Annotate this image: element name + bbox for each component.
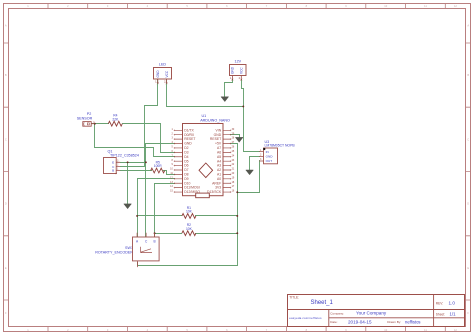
connector LED header: [154, 68, 172, 80]
svg-text:GND: GND: [231, 66, 235, 74]
svg-text:A0: A0: [217, 177, 221, 181]
svg-text:19: 19: [232, 176, 235, 179]
svg-text:3V3: 3V3: [215, 186, 221, 190]
node 5V rail R1 junction: [236, 215, 238, 217]
svg-text:IN: IN: [266, 150, 269, 154]
svg-text:RESET: RESET: [184, 137, 195, 141]
svg-text:9: 9: [171, 163, 173, 166]
resistor R5 100R: [151, 168, 165, 173]
svg-text:GND: GND: [156, 70, 160, 78]
wire GND vertical: encoder C up to arduino GND pin: [146, 144, 175, 237]
svg-text:VCC: VCC: [165, 70, 169, 77]
border zone ticks bottom: [48, 327, 445, 332]
svg-text:1: 1: [171, 128, 173, 131]
connector 12V header: [230, 65, 247, 76]
svg-text:2019-04-15: 2019-04-15: [348, 319, 372, 324]
svg-text:Your Company: Your Company: [356, 311, 387, 316]
svg-text:Drawn By:: Drawn By:: [387, 320, 401, 324]
node encoder-A R1 junction: [136, 215, 138, 217]
svg-text:C: C: [5, 137, 7, 141]
svg-text:A1: A1: [217, 173, 221, 177]
svg-text:GND: GND: [214, 133, 222, 137]
wire Q1 emitter to GND vertical: [121, 162, 146, 164]
wire Q1 base to R5: [121, 170, 152, 172]
border zone ticks top: [48, 4, 445, 9]
ground symbol below Q1 emitter: [124, 204, 132, 209]
svg-text:easyeda.com/neffistos: easyeda.com/neffistos: [289, 316, 322, 320]
svg-text:RESET: RESET: [210, 137, 221, 141]
svg-text:8: 8: [171, 159, 173, 162]
svg-text:C: C: [467, 137, 469, 141]
svg-text:10: 10: [170, 168, 173, 171]
svg-text:D3: D3: [184, 150, 188, 154]
wire encoder B up to arduino D10: [155, 184, 175, 237]
svg-text:OUT: OUT: [266, 159, 273, 163]
svg-text:LM78M05CT NOPB: LM78M05CT NOPB: [265, 143, 296, 147]
svg-text:D1/TX: D1/TX: [184, 128, 194, 132]
svg-text:LED: LED: [159, 63, 167, 67]
svg-text:A7: A7: [217, 146, 221, 150]
svg-text:25: 25: [232, 150, 235, 153]
svg-text:TITLE:: TITLE:: [289, 295, 299, 299]
svg-text:B: B: [112, 169, 114, 173]
border zone ticks left: [4, 43, 9, 300]
wire R1 right to 5V rail: [196, 215, 238, 217]
node Q1.E-GND junction: [145, 161, 147, 163]
wire R1 left to encoder A net: [138, 215, 182, 217]
svg-text:U1: U1: [202, 114, 207, 118]
svg-text:E: E: [5, 266, 7, 270]
svg-text:D10: D10: [184, 181, 190, 185]
wire Q1 emitter to ground symbol: [127, 163, 129, 204]
ground symbol at 12V input: [221, 97, 229, 102]
svg-text:7: 7: [266, 4, 268, 8]
svg-text:3: 3: [171, 137, 173, 140]
svg-text:2: 2: [171, 132, 173, 135]
svg-text:1: 1: [27, 4, 29, 8]
svg-text:2: 2: [67, 4, 69, 8]
svg-text:D2: D2: [184, 146, 188, 150]
ground symbol right of arduino: [235, 137, 243, 142]
wire R4 to arduino D3: [123, 124, 175, 153]
wire P2 sensor to arduino D4: [95, 124, 175, 157]
node 12V rail junction: [242, 105, 244, 107]
svg-text:1: 1: [155, 80, 157, 84]
wire R2 right to 5V rail: [196, 233, 238, 235]
svg-text:20: 20: [232, 172, 235, 175]
svg-text:14: 14: [170, 185, 173, 188]
U1 left pin stubs: [175, 130, 183, 192]
svg-text:18: 18: [232, 181, 235, 184]
svg-text:5: 5: [171, 146, 173, 149]
svg-text:21: 21: [232, 168, 235, 171]
border zone ticks right: [466, 43, 471, 300]
svg-text:30: 30: [232, 128, 235, 131]
node 5V rail U3-OUT junction: [236, 191, 238, 193]
svg-text:ARDUINO_NANO: ARDUINO_NANO: [200, 119, 230, 123]
svg-text:neffistos: neffistos: [405, 319, 421, 324]
svg-text:10K: 10K: [186, 227, 193, 231]
svg-text:AREF: AREF: [212, 181, 221, 185]
svg-text:11: 11: [424, 4, 427, 8]
svg-text:+5V: +5V: [215, 142, 222, 146]
svg-text:1: 1: [230, 76, 232, 80]
svg-text:B: B: [467, 73, 469, 77]
svg-text:26: 26: [232, 146, 235, 149]
svg-text:D11/MOSI: D11/MOSI: [184, 186, 200, 190]
svg-text:9: 9: [345, 4, 347, 8]
wire P2 sensor junction to R4: [92, 123, 109, 125]
svg-text:D0/RX: D0/RX: [184, 133, 195, 137]
svg-text:B: B: [5, 73, 7, 77]
svg-text:A2: A2: [217, 168, 221, 172]
svg-text:2: 2: [164, 80, 166, 84]
svg-text:24: 24: [232, 154, 235, 157]
svg-text:8: 8: [306, 4, 308, 8]
svg-text:D8: D8: [184, 173, 188, 177]
svg-text:ROTARTY_ENCODER: ROTARTY_ENCODER: [95, 250, 133, 254]
svg-text:5: 5: [186, 4, 188, 8]
wire U3 GND pin to ground: [250, 157, 260, 171]
wire 12V pin2 VCC down to junction: [242, 80, 244, 107]
U1 left pin names: [184, 128, 200, 194]
svg-text:12: 12: [454, 4, 457, 8]
svg-text:D6: D6: [184, 164, 188, 168]
svg-text:17: 17: [232, 185, 235, 188]
svg-text:Company:: Company:: [330, 311, 344, 315]
svg-text:GND: GND: [266, 155, 274, 159]
node encoder-B R2 junction: [154, 232, 156, 234]
svg-text:4: 4: [147, 4, 149, 8]
svg-text:D: D: [467, 202, 469, 206]
svg-text:A: A: [467, 24, 469, 28]
ground symbol below U3: [246, 170, 254, 175]
svg-text:100R: 100R: [154, 164, 163, 168]
svg-text:1.0: 1.0: [449, 300, 456, 305]
U1 usb connector rect: [196, 193, 210, 198]
svg-text:D7: D7: [184, 168, 188, 172]
wire arduino +5V pin to 5V rail and encoder switch: [138, 144, 238, 266]
svg-text:28: 28: [232, 137, 235, 140]
wire 12V rail down to U3 IN: [244, 107, 260, 152]
svg-text:F: F: [467, 311, 469, 315]
svg-text:2: 2: [239, 76, 241, 80]
svg-text:VCC: VCC: [240, 67, 244, 74]
svg-text:A4: A4: [217, 159, 221, 163]
U1 right pin names: [207, 128, 222, 194]
svg-text:1/1: 1/1: [450, 311, 457, 316]
wire encoder A up to arduino D9: [138, 179, 175, 237]
svg-text:D9: D9: [184, 177, 188, 181]
svg-text:D4: D4: [184, 155, 188, 159]
svg-text:REV:: REV:: [436, 301, 443, 305]
wire R2 left to encoder B net: [155, 233, 182, 235]
U1 pin numbers: [170, 128, 235, 193]
resistor R2 10K: [182, 231, 196, 236]
node P2-R4 junction: [94, 123, 96, 125]
svg-text:22K: 22K: [112, 117, 119, 121]
svg-text:GND: GND: [184, 142, 192, 146]
U1 diamond logo: [199, 163, 213, 178]
node E-line ground-stem junction: [127, 161, 129, 163]
wire arduino right GND pin to ground: [231, 135, 240, 138]
svg-text:SENSOR: SENSOR: [77, 116, 93, 120]
title block outline: [288, 295, 465, 327]
svg-text:Date:: Date:: [330, 320, 337, 324]
svg-text:Sheet_1: Sheet_1: [311, 300, 334, 306]
svg-text:23: 23: [232, 159, 235, 162]
svg-text:3: 3: [107, 4, 109, 8]
svg-text:10K: 10K: [186, 210, 193, 214]
node Q1 corner dot: [115, 172, 117, 174]
svg-text:12V: 12V: [235, 60, 242, 64]
svg-text:Sheet:: Sheet:: [436, 312, 445, 316]
svg-text:A5: A5: [217, 155, 221, 159]
svg-text:6: 6: [226, 4, 228, 8]
title block dividers: [288, 295, 465, 327]
U1 right pin stubs: [223, 130, 231, 192]
svg-text:VIN: VIN: [216, 128, 222, 132]
wire R5 to arduino D8: [164, 171, 175, 175]
svg-text:F: F: [5, 311, 7, 315]
svg-text:B: B: [154, 240, 156, 244]
U1 pin end marks: [174, 130, 232, 193]
svg-text:15: 15: [170, 190, 173, 193]
svg-text:A3: A3: [217, 164, 221, 168]
wire 12V pin1 GND to ground: [225, 80, 233, 97]
svg-text:A6: A6: [217, 150, 221, 154]
wire LED pin1 to Q1 collector net: [121, 80, 158, 167]
resistor R4 22K: [108, 121, 122, 126]
wire U3 OUT to 5V rail: [238, 161, 260, 193]
svg-text:E: E: [467, 266, 469, 270]
svg-text:10: 10: [384, 4, 387, 8]
svg-text:A: A: [5, 24, 7, 28]
wire LED pin2 VCC to 12V junction: [167, 80, 244, 107]
svg-text:D5: D5: [184, 159, 188, 163]
node 5V rail R2 junction: [236, 232, 238, 234]
svg-text:22: 22: [232, 163, 235, 166]
svg-text:TIP122_C358524: TIP122_C358524: [110, 153, 139, 157]
svg-text:D: D: [5, 202, 7, 206]
svg-text:16: 16: [232, 190, 235, 193]
resistor R1 10K: [182, 214, 196, 219]
